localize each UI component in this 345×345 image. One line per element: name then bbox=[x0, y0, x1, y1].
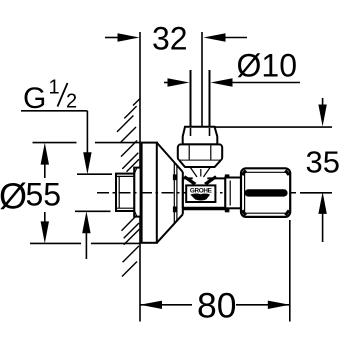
knob slot bbox=[245, 189, 288, 196]
dimension 32 bbox=[105, 21, 247, 131]
svg-text:1: 1 bbox=[49, 77, 60, 99]
funnel into body bbox=[190, 167, 197, 177]
flange front face bbox=[182, 172, 184, 214]
knob bbox=[241, 168, 290, 217]
dimension 80 bbox=[140, 220, 290, 326]
pipe bbox=[190, 70, 192, 136]
svg-text:80: 80 bbox=[197, 286, 237, 326]
svg-text:Ø10: Ø10 bbox=[237, 48, 297, 84]
dimension Ø10 bbox=[164, 48, 300, 87]
knob corner knurl marks bbox=[242, 170, 246, 175]
thread label G 1/2 bbox=[21, 77, 112, 260]
threaded nipple G1/2 bbox=[134, 168, 140, 217]
valve body bbox=[183, 178, 226, 208]
compression nut bbox=[178, 144, 222, 160]
dimension 35 bbox=[215, 98, 340, 242]
GROHE label box bbox=[186, 185, 215, 202]
GROHE lips logo bbox=[190, 193, 210, 200]
black wedges at funnel bbox=[183, 175, 196, 185]
svg-text:Ø: Ø bbox=[0, 176, 27, 217]
wall face line (also extension line for 32 and 80) bbox=[139, 32, 141, 322]
wall hatching bbox=[117, 98, 140, 276]
svg-text:32: 32 bbox=[152, 21, 188, 57]
outlet neck bbox=[225, 178, 241, 209]
dimension Ø55 bbox=[0, 143, 140, 244]
black corner marks bbox=[173, 174, 177, 180]
horizontal centerline bbox=[97, 192, 296, 194]
flange cylinder bbox=[142, 143, 157, 243]
svg-text:GROHE: GROHE bbox=[190, 187, 213, 194]
funnel center tick bbox=[200, 169, 202, 177]
svg-text:2: 2 bbox=[66, 91, 77, 113]
compression cup bbox=[183, 127, 218, 145]
svg-text:35: 35 bbox=[306, 144, 340, 179]
svg-text:55: 55 bbox=[26, 177, 62, 213]
flange cone bbox=[157, 143, 183, 172]
nut lower cone bbox=[180, 161, 221, 167]
